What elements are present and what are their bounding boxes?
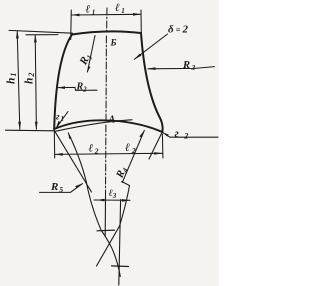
dimension line h1 [17, 31, 20, 129]
construction line left to apex [68, 133, 120, 277]
dimension line h2 [35, 35, 36, 129]
dimension line l1 [71, 13, 141, 16]
blade left edge [54, 35, 72, 130]
leader R2 [57, 87, 97, 90]
arrow h1 top [16, 31, 19, 39]
svg-text:R3: R3 [182, 60, 197, 72]
arrow r1 [56, 121, 61, 129]
leader r2 [162, 132, 218, 137]
svg-text:R2: R2 [76, 82, 88, 94]
blade right edge [141, 33, 163, 132]
arrow l2 left [55, 153, 63, 156]
dimension line l2 [55, 153, 163, 154]
centerline [106, 8, 108, 198]
svg-text:h1: h1 [6, 72, 19, 84]
arrow h1 bottom [18, 122, 21, 130]
apex cross 1 [97, 229, 115, 232]
arrow l3 left [97, 199, 105, 202]
svg-text:δ=2: δ=2 [168, 24, 190, 36]
arrow R3 [148, 67, 156, 70]
arrow l2 right [154, 152, 162, 155]
blade bottom edge arc [54, 120, 162, 132]
wire extension bottom for h [6, 129, 55, 132]
svg-text:R4: R4 [114, 165, 130, 181]
svg-text:ℓ1: ℓ1 [115, 2, 126, 15]
arrow R5 [75, 183, 83, 188]
arrow h2 top [34, 35, 37, 43]
construction ray R5 from left corner [55, 131, 92, 192]
leader R4 [122, 131, 144, 183]
arrow delta [134, 54, 141, 60]
construction line right short from corner [149, 133, 162, 160]
arrow R1 [87, 66, 90, 72]
svg-text:ℓ2: ℓ2 [89, 143, 100, 156]
arrow R2 [57, 86, 65, 89]
wire axis of lower apex [119, 200, 121, 286]
leader R1 [87, 36, 95, 73]
arrow l1 left [72, 14, 80, 17]
leader r1 [56, 112, 68, 129]
wire extension right corner for l2 [161, 134, 164, 158]
apex cross 2 [112, 265, 129, 268]
arrow R4 top [139, 130, 144, 137]
svg-text:Б: Б [110, 39, 117, 49]
wire top extension right for l1 [140, 10, 142, 34]
svg-text:h2: h2 [24, 72, 37, 84]
blade bottom edge second stroke [56, 120, 133, 132]
arrow h2 bottom [35, 122, 38, 130]
arrow l1 right [133, 13, 141, 16]
blade top edge [72, 31, 141, 34]
wire extension h2 top [26, 34, 58, 36]
wire top extension left for l1 [70, 10, 73, 40]
dimension line l3 [94, 199, 130, 201]
leader R5 shelf [40, 184, 83, 193]
svg-text:ℓ3: ℓ3 [109, 188, 117, 200]
svg-text:г2: г2 [175, 128, 194, 141]
svg-text:ℓ1: ℓ1 [86, 4, 97, 17]
svg-text:А: А [108, 115, 116, 126]
arrow on bottom edge for left construction line [68, 133, 71, 139]
svg-text:ℓ2: ℓ2 [125, 142, 138, 155]
wire extension below left corner [53, 130, 55, 158]
wire extension h1 top [9, 30, 73, 33]
construction line right to apex [97, 182, 130, 267]
svg-text:г1: г1 [56, 112, 65, 123]
leader delta=2 [135, 34, 168, 59]
arrow l3 right [122, 199, 130, 202]
arrow r2 [162, 132, 168, 136]
leader R3 shelf [148, 67, 215, 69]
